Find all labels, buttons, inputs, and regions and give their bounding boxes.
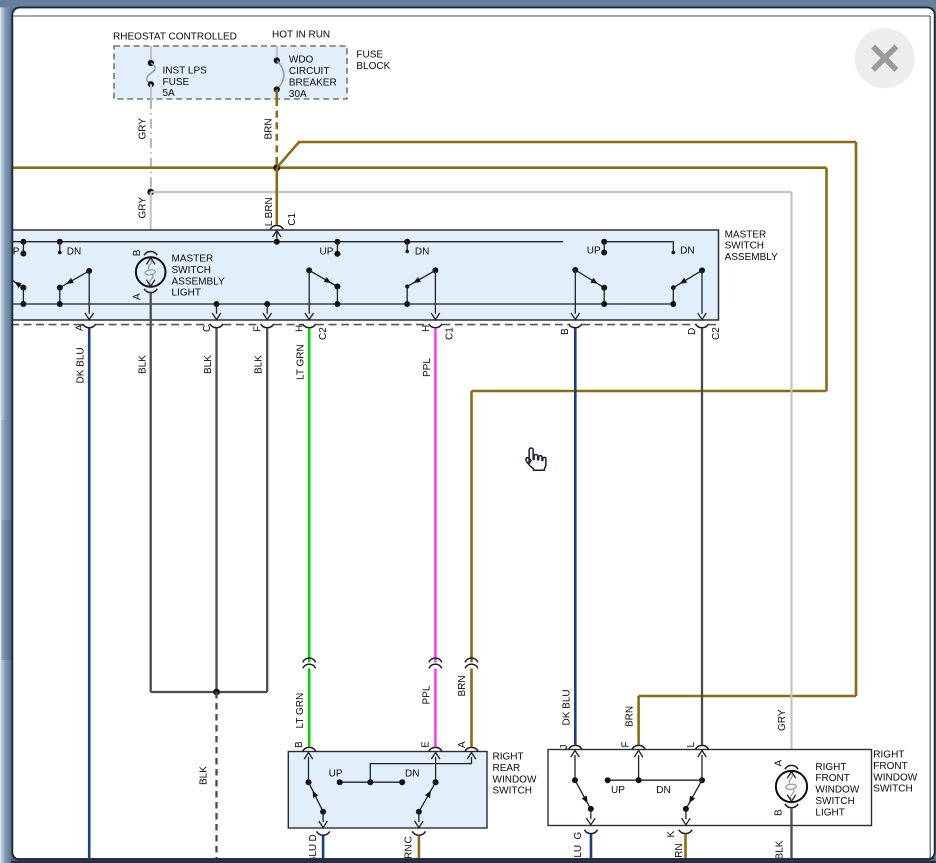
- pin cup F: [261, 324, 274, 328]
- master top rail: [11, 241, 563, 243]
- pin cup C: [210, 324, 223, 328]
- pin cup G front: [584, 830, 597, 834]
- svg-text:BLK: BLK: [203, 355, 214, 374]
- right front window switch box: [548, 750, 872, 826]
- svg-text:C1: C1: [444, 327, 455, 340]
- fuse INST LPS 5A: [148, 60, 154, 66]
- svg-text:LIGHT: LIGHT: [815, 807, 844, 818]
- pin cup H C2: [303, 324, 316, 328]
- svg-text:A: A: [773, 760, 784, 767]
- front lamp cup A: [785, 765, 798, 769]
- right rear window switch box: [288, 752, 487, 829]
- connector in-line LT GRN: [303, 658, 316, 662]
- pin arrow J front: [574, 755, 576, 780]
- svg-text:A: A: [132, 293, 143, 300]
- close button: [855, 28, 915, 88]
- wire BRN outer loop right: [855, 142, 858, 696]
- svg-text:K: K: [666, 831, 677, 838]
- wire breaker feed: [276, 46, 278, 61]
- wire GRY vertical right: [790, 192, 792, 765]
- svg-text:D: D: [687, 328, 698, 335]
- svg-text:BREAKER: BREAKER: [289, 78, 337, 89]
- pin cup F front: [632, 745, 645, 749]
- right front window switch light: [787, 772, 796, 779]
- wire DK BLU rear D: [322, 836, 325, 858]
- svg-text:LT GRN: LT GRN: [296, 344, 307, 380]
- svg-text:REAR: REAR: [493, 763, 521, 774]
- svg-text:J: J: [559, 745, 570, 750]
- wire GRY horizontal: [151, 191, 792, 193]
- svg-text:CIRCUIT: CIRCUIT: [289, 66, 330, 77]
- svg-text:SWITCH: SWITCH: [172, 265, 211, 276]
- svg-text:GRY: GRY: [137, 197, 148, 219]
- wire BLK pin F: [266, 328, 268, 692]
- svg-text:FUSE: FUSE: [356, 49, 383, 60]
- wire BLK D to L: [701, 328, 703, 745]
- svg-text:A: A: [457, 741, 468, 748]
- wire BRN inner loop right: [825, 168, 828, 391]
- pin cup A rear: [465, 747, 478, 751]
- svg-text:ASSEMBLY: ASSEMBLY: [725, 252, 778, 263]
- switch S4 left arm: [572, 267, 578, 273]
- rear feed from pin A: [370, 757, 471, 782]
- switch S4 left output: [574, 270, 576, 314]
- svg-text:RIGHT: RIGHT: [873, 750, 904, 761]
- svg-text:L BRN: L BRN: [264, 197, 275, 226]
- svg-text:BLOCK: BLOCK: [356, 61, 390, 72]
- wire BRN lower to rear A: [470, 669, 473, 747]
- wire BLK from master lamp: [150, 293, 152, 693]
- svg-text:BLK: BLK: [775, 840, 786, 859]
- svg-text:PPL: PPL: [421, 685, 432, 704]
- dialog inner border right: [929, 16, 931, 859]
- pin arrow B->rail: [276, 231, 278, 242]
- switch S4 right arm: [699, 267, 705, 273]
- pin cup H C1: [429, 324, 442, 328]
- wire DK BLU front G: [590, 834, 593, 858]
- switch S3 arm: [432, 267, 438, 273]
- svg-text:C1: C1: [287, 212, 298, 225]
- wire BRN diagonal branch: [277, 142, 856, 168]
- svg-text:C2: C2: [711, 327, 722, 340]
- svg-text:SWITCH: SWITCH: [725, 241, 764, 252]
- svg-text:B: B: [773, 809, 784, 816]
- svg-text:DK BLU: DK BLU: [76, 347, 87, 383]
- svg-text:L: L: [686, 742, 697, 748]
- svg-text:UP: UP: [587, 245, 601, 256]
- wire BRN dashed: [275, 99, 278, 168]
- svg-text:RIGHT: RIGHT: [493, 752, 524, 763]
- switch S1 right arm: [86, 268, 92, 274]
- wire BRN rear C: [418, 836, 421, 858]
- circuit breaker WDO 30A: [274, 57, 280, 63]
- switch S1 left arm: [20, 285, 26, 291]
- front lamp cup B: [785, 804, 798, 808]
- svg-text:DN: DN: [656, 785, 670, 796]
- svg-text:C: C: [202, 325, 213, 332]
- svg-text:DK BLU: DK BLU: [561, 689, 572, 725]
- switch S2 DN contact: [404, 239, 410, 245]
- wire BRN front K: [684, 834, 687, 858]
- svg-text:RHEOSTAT CONTROLLED: RHEOSTAT CONTROLLED: [113, 31, 237, 42]
- switch S4 right output: [701, 270, 703, 313]
- mouse cursor: [526, 448, 546, 470]
- pin C from rail: [214, 301, 220, 307]
- wire PPL upper: [434, 328, 437, 662]
- svg-text:UP: UP: [320, 247, 334, 258]
- pin arrow L front: [701, 755, 703, 780]
- svg-text:MASTER: MASTER: [172, 254, 214, 265]
- left strip dark band 2: [2, 520, 13, 660]
- rear left arm: [320, 809, 326, 815]
- svg-text:LT GRN: LT GRN: [295, 693, 306, 729]
- svg-text:C: C: [404, 836, 415, 843]
- svg-text:B: B: [294, 741, 305, 748]
- svg-text:FRONT: FRONT: [815, 773, 849, 784]
- svg-text:B: B: [132, 249, 143, 256]
- pin cup A: [83, 324, 96, 328]
- svg-text:BLK: BLK: [199, 766, 210, 785]
- BLK ground tie: [151, 691, 268, 693]
- svg-text:F: F: [253, 326, 264, 332]
- master switch assembly box: [8, 230, 719, 320]
- front UP/DN bar: [608, 779, 702, 781]
- svg-text:GRY: GRY: [137, 118, 148, 140]
- svg-text:WINDOW: WINDOW: [815, 785, 859, 796]
- svg-text:BRN: BRN: [457, 675, 468, 696]
- pin F from rail: [264, 301, 270, 307]
- wire BLK dashed ground: [215, 692, 217, 858]
- window bottom edge: [11, 861, 936, 863]
- pin arrow E rear: [435, 757, 437, 782]
- wire LT GRN lower: [308, 669, 311, 747]
- top bar cover: [0, 0, 936, 7]
- wire PPL lower: [434, 669, 437, 747]
- pin cup K front: [679, 830, 692, 834]
- pin cup L front: [695, 745, 708, 749]
- wire GRY dash-dot: [150, 99, 152, 192]
- wire fuse feed: [150, 46, 152, 63]
- svg-text:DN: DN: [405, 768, 419, 779]
- front right arm: [686, 780, 702, 809]
- window top bar: [0, 0, 936, 8]
- master lamp cup A: [144, 289, 157, 293]
- switch S4 DN contact: [672, 242, 674, 253]
- switch S3 output: [434, 270, 436, 313]
- svg-text:DN: DN: [415, 247, 429, 258]
- wire BLK front lamp ground: [790, 808, 792, 858]
- svg-text:H: H: [421, 325, 432, 332]
- svg-text:FUSE: FUSE: [163, 77, 190, 88]
- left strip gradient: [0, 0, 12, 863]
- svg-text:ASSEMBLY: ASSEMBLY: [172, 276, 225, 287]
- svg-text:RIGHT: RIGHT: [815, 762, 846, 773]
- dialog inner border top: [13, 15, 930, 17]
- wire LT GRN upper: [308, 328, 311, 662]
- svg-text:BRN: BRN: [263, 118, 274, 139]
- switch S2 output: [308, 270, 310, 313]
- svg-text:G: G: [573, 832, 584, 840]
- svg-text:SWITCH: SWITCH: [815, 796, 854, 807]
- left strip dark band 2 cover: [2, 520, 13, 660]
- svg-text:WINDOW: WINDOW: [873, 772, 917, 783]
- connector in-line PPL: [429, 658, 442, 662]
- switch S1 UP contact: [20, 239, 26, 245]
- pin cup B rear: [303, 747, 316, 751]
- left strip cover: [0, 0, 12, 863]
- svg-text:5A: 5A: [163, 88, 176, 99]
- pin C1 top cup: [270, 225, 283, 229]
- svg-text:BLK: BLK: [254, 355, 265, 374]
- wire DK BLU pin A: [88, 328, 91, 858]
- pin cup D rear: [317, 831, 330, 835]
- svg-text:F: F: [620, 741, 631, 747]
- diagram bottom border: [12, 858, 935, 860]
- svg-text:C2: C2: [318, 327, 329, 340]
- svg-text:H: H: [295, 325, 306, 332]
- rear UP/DN bar: [340, 781, 403, 783]
- pin cup D C2: [695, 324, 708, 328]
- svg-text:WDO: WDO: [289, 55, 314, 66]
- wire GRY to master lamp: [150, 192, 152, 251]
- svg-text:SWITCH: SWITCH: [493, 786, 532, 797]
- fuse block box: [114, 46, 347, 99]
- svg-text:E: E: [420, 741, 431, 748]
- svg-text:A: A: [75, 324, 86, 331]
- wire BLK pin C: [215, 328, 217, 692]
- switch S2 UP contact: [334, 239, 340, 245]
- pin cup C rear: [412, 831, 425, 835]
- svg-text:UP: UP: [329, 768, 343, 779]
- svg-text:BRN: BRN: [624, 706, 635, 727]
- switch S2 arm: [306, 267, 312, 273]
- left strip dark band 1: [2, 420, 13, 520]
- node BRN junction: [273, 164, 280, 171]
- svg-text:INST LPS: INST LPS: [163, 66, 208, 77]
- svg-text:MASTER: MASTER: [725, 229, 767, 240]
- master bottom rail: [11, 303, 673, 305]
- pin cup J front: [569, 745, 582, 749]
- svg-text:UP: UP: [611, 785, 625, 796]
- node GRY junction: [147, 189, 154, 196]
- svg-text:PPL: PPL: [422, 358, 433, 377]
- svg-text:SWITCH: SWITCH: [873, 784, 912, 795]
- master switch assembly light: [146, 258, 155, 265]
- left strip dark band 1 cover: [2, 420, 13, 520]
- switch S1 output to pin A: [88, 271, 90, 314]
- svg-text:D: D: [308, 834, 319, 841]
- wire BRN main horizontal: [13, 166, 827, 169]
- svg-text:FRONT: FRONT: [873, 761, 907, 772]
- pin arrow F front: [638, 755, 640, 780]
- master lamp cup B: [144, 251, 157, 255]
- svg-text:DN: DN: [67, 246, 81, 257]
- rear right arm: [416, 809, 422, 815]
- wire BRN to master top pin: [275, 168, 278, 225]
- connector dashed line C2/C1: [11, 324, 82, 326]
- svg-text:DN: DN: [680, 245, 694, 256]
- svg-text:LIGHT: LIGHT: [172, 288, 201, 299]
- pin cup E rear: [429, 747, 442, 751]
- pin arrow B rear: [308, 757, 310, 782]
- front left arm: [575, 780, 591, 809]
- svg-text:BLK: BLK: [137, 355, 148, 374]
- svg-text:B: B: [560, 328, 571, 335]
- svg-text:GRY: GRY: [777, 709, 788, 731]
- pin cup B: [569, 324, 582, 328]
- switch S4 UP contact: [601, 239, 607, 245]
- svg-text:HOT IN RUN: HOT IN RUN: [272, 30, 330, 41]
- svg-text:30A: 30A: [289, 89, 307, 100]
- connector in-line BRN: [465, 658, 478, 662]
- svg-text:WINDOW: WINDOW: [493, 774, 537, 785]
- wire DK BLU B to J: [574, 328, 577, 745]
- switch S1 DN contact: [57, 239, 63, 245]
